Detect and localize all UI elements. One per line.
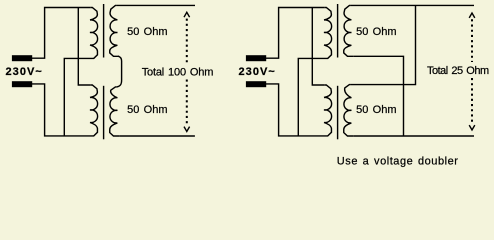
svg-text:230V~: 230V~ [239, 66, 276, 78]
transformer T4 primary winding [322, 85, 332, 136]
svg-text:Use a voltage doubler: Use a voltage doubler [337, 155, 459, 167]
svg-text:230V~: 230V~ [6, 66, 43, 78]
transformer T4 core [337, 86, 339, 140]
wire: top output rail (junction at parallel link) [351, 4, 474, 6]
wire: top node to T2 primary top (crosses without junction) [78, 8, 90, 86]
wire: bottom output rail [353, 135, 474, 137]
wire: T1 primary bottom to bottom rail (junction) [64, 58, 88, 135]
transformer T1 core [103, 4, 105, 58]
svg-text:50 Ohm: 50 Ohm [127, 104, 168, 116]
wire: bottom output rail [119, 135, 195, 137]
svg-text:Total 25 Ohm: Total 25 Ohm [427, 65, 489, 77]
wire: top terminal to T3 primary top [266, 8, 325, 59]
transformer T3 primary winding [322, 8, 332, 59]
wire: top node to T4 primary top (crosses without junction) [312, 8, 324, 86]
transformer T4 secondary winding [344, 85, 353, 136]
svg-text:50 Ohm: 50 Ohm [127, 26, 168, 38]
wire: bottom terminal to T2 primary bottom [32, 84, 88, 136]
wire: bottom terminal to T4 primary bottom [266, 84, 322, 136]
source terminal (line) [246, 55, 266, 61]
transformer T1 primary winding [88, 8, 98, 59]
svg-text:50 Ohm: 50 Ohm [356, 26, 397, 38]
dimension arrow (dashed, double-headed) [184, 12, 190, 17]
wire: top output rail [117, 4, 195, 6]
source terminal (neutral) [246, 81, 266, 87]
svg-text:50 Ohm: 50 Ohm [356, 104, 397, 116]
wire: top terminal to T1 primary top [32, 8, 91, 59]
transformer T3 secondary winding [344, 5, 353, 56]
dimension arrow (dashed, double-headed) [469, 13, 475, 18]
wire: series link T1 secondary bottom to T2 secondary top [117, 56, 122, 87]
wire: parallel link top rail down to T4 secondary top [351, 5, 416, 84]
transformer T1 secondary winding [110, 5, 119, 56]
svg-text:Total 100 Ohm: Total 100 Ohm [142, 66, 214, 78]
source terminal (neutral) [12, 81, 32, 87]
source terminal (line) [12, 55, 32, 61]
transformer T2 core [103, 86, 105, 140]
wire: T3 primary bottom to bottom rail (junction) [298, 58, 322, 135]
wire: T3 secondary bottom down to bottom rail (crosses link wire) [353, 56, 403, 136]
transformer T2 secondary winding [110, 87, 119, 136]
transformer T2 primary winding [88, 85, 98, 136]
transformer T3 core [337, 4, 339, 58]
